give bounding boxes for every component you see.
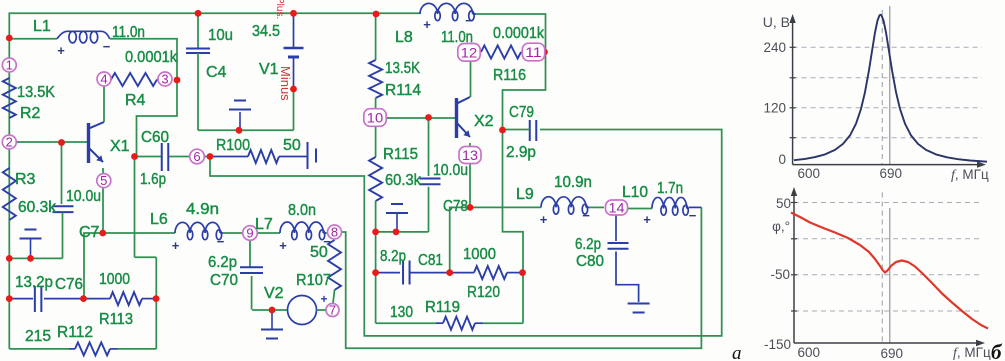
svg-text:600: 600 [797, 345, 820, 360]
svg-text:13.2p: 13.2p [15, 274, 53, 291]
svg-text:10.0u: 10.0u [433, 162, 468, 179]
svg-text:R115: R115 [383, 146, 418, 163]
svg-text:10u: 10u [208, 27, 233, 44]
svg-text:9: 9 [246, 226, 253, 241]
svg-text:0: 0 [778, 152, 786, 167]
svg-text:690: 690 [880, 346, 903, 361]
svg-text:R112: R112 [57, 324, 93, 341]
svg-text:−: − [323, 234, 331, 249]
svg-text:12: 12 [461, 44, 478, 60]
svg-text:L6: L6 [150, 211, 168, 228]
svg-text:6.2p: 6.2p [208, 254, 237, 271]
svg-text:130: 130 [390, 304, 413, 321]
svg-text:2.9p: 2.9p [506, 144, 536, 161]
svg-text:+: + [57, 43, 65, 58]
svg-text:C79: C79 [509, 104, 534, 121]
svg-text:V1: V1 [259, 61, 279, 78]
svg-text:240: 240 [763, 40, 786, 55]
svg-text:14: 14 [609, 200, 625, 216]
svg-text:13: 13 [462, 147, 478, 163]
svg-text:1000: 1000 [463, 246, 496, 263]
svg-text:8.2p: 8.2p [380, 248, 406, 265]
svg-text:U, В: U, В [763, 14, 790, 30]
svg-text:6.2p: 6.2p [575, 236, 601, 253]
svg-text:7: 7 [329, 303, 336, 318]
svg-text:R107: R107 [296, 272, 331, 289]
svg-text:R3: R3 [15, 171, 36, 188]
svg-text:0.0001k: 0.0001k [493, 25, 545, 42]
svg-text:1: 1 [6, 58, 13, 73]
svg-text:C78: C78 [443, 198, 468, 215]
svg-text:50: 50 [776, 196, 791, 211]
svg-text:13.5K: 13.5K [385, 60, 420, 77]
svg-text:C80: C80 [576, 253, 604, 270]
svg-text:-50: -50 [770, 267, 790, 282]
svg-text:10.9n: 10.9n [554, 174, 592, 191]
svg-text:R2: R2 [20, 105, 41, 122]
svg-text:Plus.: Plus. [274, 0, 285, 19]
svg-text:R119: R119 [425, 299, 460, 316]
svg-text:C60: C60 [141, 129, 169, 146]
svg-text:X1: X1 [110, 138, 130, 155]
svg-text:C76: C76 [55, 276, 83, 293]
svg-text:215: 215 [25, 328, 51, 345]
svg-text:1.6p: 1.6p [140, 171, 166, 188]
svg-text:−: − [103, 39, 111, 54]
svg-text:а: а [732, 343, 742, 361]
svg-text:R4: R4 [125, 92, 146, 109]
svg-text:690: 690 [879, 166, 902, 181]
svg-text:5: 5 [100, 173, 107, 188]
svg-text:11.0n: 11.0n [441, 29, 473, 46]
svg-text:8.0n: 8.0n [288, 202, 316, 219]
svg-text:11.0n: 11.0n [112, 24, 145, 41]
svg-text:V2: V2 [264, 285, 284, 302]
svg-text:-150: -150 [764, 337, 791, 352]
svg-text:f, МГц: f, МГц [951, 167, 989, 183]
svg-text:600: 600 [797, 166, 820, 181]
svg-text:+: + [643, 212, 651, 227]
svg-text:R116: R116 [493, 67, 526, 84]
svg-text:+: + [320, 292, 327, 306]
svg-text:C7: C7 [79, 224, 100, 241]
svg-text:−: − [582, 208, 590, 223]
svg-text:8: 8 [331, 225, 338, 240]
svg-text:0.0001k: 0.0001k [125, 49, 178, 66]
svg-text:4: 4 [100, 72, 107, 87]
svg-text:C4: C4 [206, 64, 227, 81]
svg-text:1000: 1000 [99, 271, 130, 288]
svg-text:50: 50 [283, 137, 301, 154]
svg-text:L1: L1 [33, 18, 51, 35]
svg-text:13.5K: 13.5K [17, 84, 55, 101]
svg-text:−: − [689, 208, 697, 223]
svg-text:R114: R114 [385, 82, 421, 99]
svg-text:L9: L9 [516, 186, 534, 203]
svg-text:4.9n: 4.9n [186, 201, 219, 218]
svg-text:120: 120 [763, 101, 786, 116]
svg-text:1.7n: 1.7n [657, 180, 683, 197]
svg-text:R113: R113 [99, 311, 133, 328]
svg-text:+: + [172, 238, 180, 253]
svg-text:L7: L7 [255, 216, 273, 233]
svg-text:10.0u: 10.0u [66, 188, 101, 205]
svg-text:11: 11 [525, 44, 542, 60]
svg-text:60.3k: 60.3k [18, 199, 57, 216]
svg-text:φ,°: φ,° [772, 219, 790, 234]
svg-text:3: 3 [161, 72, 168, 87]
svg-text:R100: R100 [216, 137, 250, 154]
svg-text:60.3k: 60.3k [385, 172, 422, 189]
svg-text:C81: C81 [418, 252, 443, 269]
svg-text:+: + [423, 17, 431, 32]
svg-text:−: − [465, 13, 473, 28]
svg-text:+: + [540, 212, 548, 227]
svg-text:2: 2 [6, 135, 13, 150]
svg-text:L8: L8 [395, 29, 413, 46]
svg-text:6: 6 [193, 149, 200, 164]
svg-text:10: 10 [367, 110, 384, 126]
svg-text:Minus: Minus [278, 66, 293, 101]
svg-text:−: − [217, 234, 225, 249]
svg-text:f, МГц: f, МГц [953, 345, 991, 361]
svg-text:L10: L10 [622, 184, 648, 201]
svg-text:б: б [991, 340, 1003, 361]
svg-text:X2: X2 [474, 113, 494, 130]
svg-text:34.5: 34.5 [252, 23, 280, 40]
svg-text:R120: R120 [467, 284, 500, 301]
svg-text:C70: C70 [210, 272, 238, 289]
svg-text:+: + [279, 238, 287, 253]
